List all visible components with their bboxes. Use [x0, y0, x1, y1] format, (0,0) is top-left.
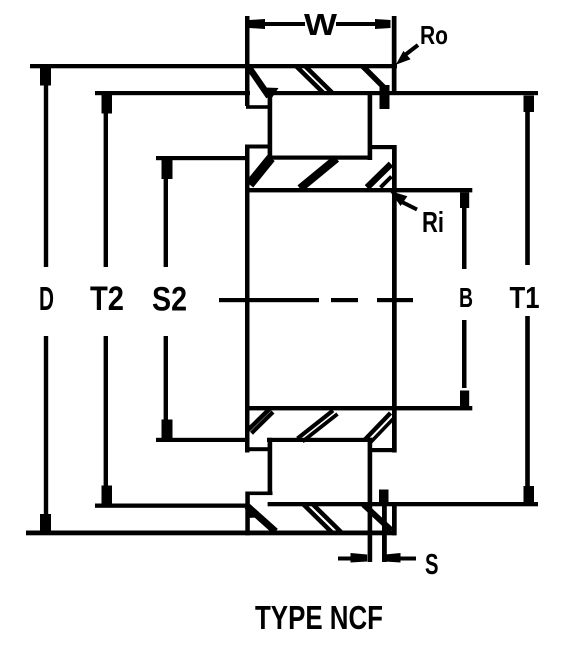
- centerline: [219, 298, 319, 302]
- outer ring top: bottom edge / T2 top line: [95, 91, 250, 95]
- outer ring bottom: right face: [392, 502, 397, 535]
- svg-text:TYPE NCF: TYPE NCF: [255, 599, 383, 636]
- outer ring top hatch 1: [249, 68, 269, 97]
- outer ring top: top edge + D extension line: [30, 64, 397, 68]
- outer ring bottom: left face: [245, 492, 250, 536]
- inner ring top hatch 1: [250, 158, 272, 185]
- outer ring bottom hatch right: [364, 505, 392, 531]
- dim S line right + arrow: [385, 553, 401, 563]
- svg-text:W: W: [304, 7, 338, 42]
- S right extension line: [382, 490, 387, 563]
- dim D arrows and line: [40, 68, 51, 86]
- dim S line left + arrow: [338, 557, 352, 561]
- svg-text:D: D: [39, 280, 54, 317]
- svg-text:Ri: Ri: [422, 207, 444, 239]
- inner ring top: left flange top: [245, 145, 271, 149]
- dim W left arrow: [250, 19, 266, 29]
- inner ring top hatch 3: [367, 164, 391, 188]
- roller top right edge: [368, 91, 373, 160]
- dim B arrows and line: [460, 193, 469, 209]
- outer ring bottom hatch 3: [313, 505, 342, 533]
- roller bottom right edge / S left extension: [368, 438, 373, 562]
- outer ring bottom: bottom edge / D bottom line: [26, 531, 396, 536]
- inner ring top: bottom edge / B top line: [245, 188, 472, 192]
- svg-text:T2: T2: [90, 280, 124, 318]
- inner ring top: right flange top: [369, 145, 397, 149]
- dim W line: [265, 22, 305, 26]
- svg-text:B: B: [459, 282, 473, 313]
- leader Ri: [400, 201, 417, 210]
- roller top left edge: [268, 91, 273, 157]
- dim S2 arrows and line: [162, 160, 173, 179]
- inner ring top hatch 2: [300, 159, 337, 189]
- W left extension / outer-ring left face: [245, 16, 250, 106]
- outer ring top: bottom edge / roller top / T1 top line: [268, 91, 538, 95]
- dim T2 arrows and line: [102, 95, 113, 114]
- roller top bottom edge / inner raceway: [267, 156, 372, 160]
- outer ring bottom hatch 2: [304, 505, 333, 533]
- inner ring bottom: left flange bottom: [245, 447, 271, 451]
- inner ring bottom: right flange bottom: [372, 448, 397, 452]
- outer ring bottom: right rib tab: [379, 490, 389, 504]
- outer ring bottom: top edge / T1 bottom line: [268, 502, 538, 506]
- svg-text:T1: T1: [510, 281, 540, 315]
- dim T1 arrows and line: [524, 96, 535, 113]
- svg-text:S2: S2: [152, 281, 187, 319]
- outer ring top hatch 4: [363, 66, 385, 88]
- inner ring bottom hatch 1: [248, 409, 270, 431]
- outer ring top: left rib bottom edge: [246, 105, 271, 109]
- leader Ro: [405, 45, 418, 55]
- S2 bottom line: [156, 438, 249, 442]
- dim W right arrow: [375, 19, 391, 29]
- T2 bottom line: [95, 504, 246, 508]
- inner ring left face (full height): [245, 145, 250, 453]
- outer ring top hatch 3: [305, 66, 334, 94]
- svg-text:S: S: [425, 549, 439, 581]
- W right extension / outer-ring right face: [392, 16, 397, 93]
- outer ring top: right rib tab: [380, 85, 390, 109]
- inner ring right face (full height): [392, 145, 397, 453]
- inner ring bottom hatch 3: [365, 413, 391, 440]
- roller bottom left edge: [268, 438, 273, 495]
- inner ring bottom hatch 2: [298, 411, 334, 439]
- S2 top line: [156, 156, 249, 160]
- inner ring bottom: raceway / roller top edge: [267, 438, 373, 442]
- outer ring top hatch 2: [296, 66, 325, 94]
- outer ring bottom hatch 1: [247, 506, 276, 532]
- inner ring bottom: top edge / B bottom line: [245, 406, 472, 410]
- outer ring bottom: left rib top edge: [246, 492, 273, 496]
- svg-text:Ro: Ro: [420, 20, 448, 50]
